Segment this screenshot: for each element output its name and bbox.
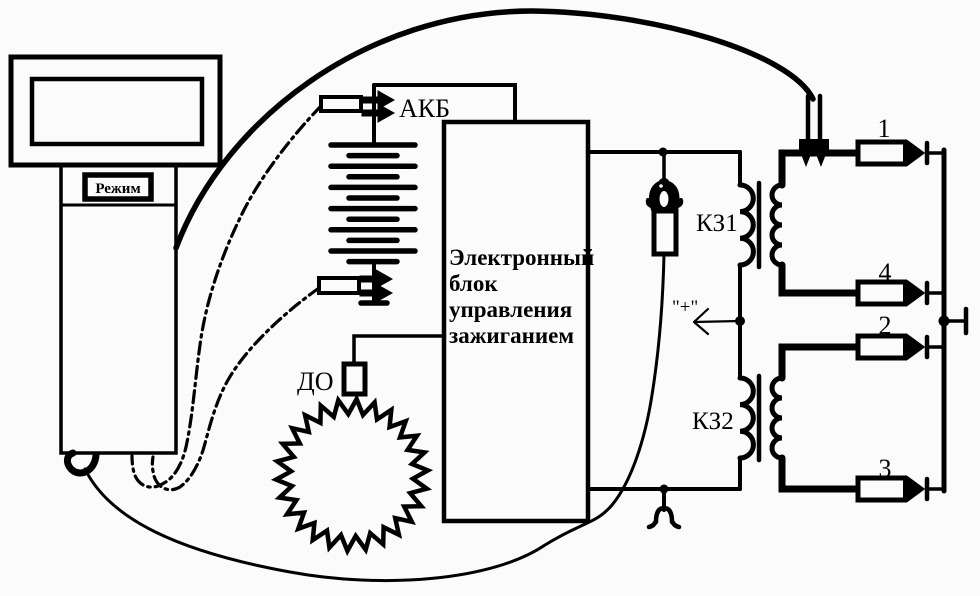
svg-text:зажиганием: зажиганием <box>449 323 574 348</box>
spark plug 1 <box>858 142 921 164</box>
svg-text:блок: блок <box>449 271 498 296</box>
probe cable to battery minus (dash-dot) <box>152 288 319 490</box>
bus tick <box>944 319 966 323</box>
wire between windings with plus node <box>738 265 742 378</box>
tester cable hook <box>67 453 96 473</box>
coil K31 core <box>757 183 762 267</box>
coil K32 secondary winding <box>772 378 782 458</box>
node plus <box>735 316 745 326</box>
svg-text:ДО: ДО <box>297 367 334 396</box>
svg-text:КЗ2: КЗ2 <box>692 408 734 435</box>
HV connector above plug 1 <box>799 96 829 167</box>
tester panel separator <box>61 204 176 207</box>
electronic control unit U1 <box>444 122 588 521</box>
plug 1 electrode <box>925 143 930 163</box>
toothed wheel <box>276 399 428 551</box>
inductive clamp probe <box>648 178 681 254</box>
battery bottom lead <box>372 262 376 303</box>
coil K32 core <box>757 376 762 460</box>
ground stem <box>662 489 666 510</box>
plus arrow <box>694 309 740 334</box>
high-voltage pickup cable (top arc) <box>176 11 813 248</box>
svg-text:"+": "+" <box>672 297 698 318</box>
svg-text:Режим: Режим <box>95 181 140 197</box>
wire sensor to control unit <box>354 336 444 364</box>
button Режим <box>85 175 151 199</box>
svg-text:КЗ1: КЗ1 <box>696 210 738 237</box>
coil K32 primary winding <box>740 378 753 458</box>
plug 4 electrode <box>925 283 930 303</box>
wire primary to bottom wire <box>738 458 742 489</box>
ground symbol <box>649 508 679 527</box>
svg-text:4: 4 <box>879 258 892 287</box>
tester body <box>61 165 176 453</box>
spark plug 2 <box>858 336 921 358</box>
battery minus probe <box>319 270 392 302</box>
spark plug 3 <box>858 478 921 500</box>
wire control unit to coil primaries (bottom) <box>588 487 740 491</box>
plug 3 electrode <box>925 479 930 499</box>
battery GB plates <box>331 145 415 262</box>
probe cable to battery plus (dash-dot) <box>132 106 321 487</box>
wire secondary K32 bottom to plug 3 <box>782 458 858 489</box>
plug 2 link <box>929 345 944 349</box>
svg-text:управления: управления <box>449 297 572 322</box>
plug 4 link <box>929 291 944 295</box>
common electrode bus <box>942 150 947 491</box>
coil K31 secondary winding <box>772 185 782 265</box>
svg-text:1: 1 <box>878 114 891 143</box>
node B (ground tap) <box>660 485 669 494</box>
bus junction node <box>939 316 950 327</box>
plug 3 link <box>929 487 944 491</box>
bus end bar <box>964 309 969 333</box>
battery bottom terminal bar <box>361 300 387 306</box>
svg-text:2: 2 <box>879 311 892 340</box>
plug 1 link <box>929 151 944 155</box>
wire battery plus to control unit <box>374 85 515 122</box>
plug 2 electrode <box>925 337 930 357</box>
wire secondary K31 top to plug 1 <box>782 153 858 185</box>
tester head <box>11 57 220 165</box>
spark plug 4 <box>858 282 921 304</box>
tester display <box>32 79 202 144</box>
coil K31 primary winding <box>740 185 753 265</box>
svg-text:3: 3 <box>879 454 892 483</box>
wire secondary K31 bottom to plug 4 <box>782 265 858 293</box>
svg-text:Электронный: Электронный <box>449 245 594 270</box>
tester cable to clamp probe (bottom curve) <box>85 254 664 581</box>
battery plus probe <box>321 91 394 122</box>
sensor ДО <box>344 364 365 394</box>
svg-text:АКБ: АКБ <box>399 94 450 123</box>
wire primary bus vertical <box>738 152 742 185</box>
battery top lead <box>372 85 376 145</box>
wire secondary K32 top to plug 2 <box>782 347 858 378</box>
clamp hang wire <box>662 152 666 183</box>
node A (clamp tap) <box>659 148 668 157</box>
wire control unit to coil primaries (top) <box>588 150 740 154</box>
